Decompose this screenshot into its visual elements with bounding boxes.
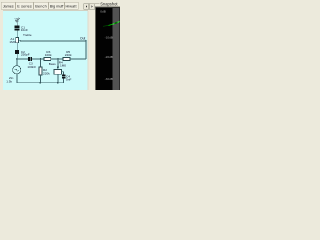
plot dB labels (100, 9, 113, 81)
spin buttons (84, 4, 95, 9)
response curve (103, 24, 109, 27)
wire R3 to R5 (51, 58, 63, 60)
svg-text:1M0: 1M0 (60, 63, 66, 67)
node ground Bass (57, 82, 59, 84)
capacitor C4 (62, 75, 66, 77)
svg-text:James: James (3, 4, 14, 8)
svg-text:Bench: Bench (35, 4, 47, 8)
node Bass tap (57, 58, 59, 60)
tab separators (16, 3, 65, 9)
svg-text:1M0: 1M0 (9, 40, 15, 44)
wiper arrow Treble (19, 40, 22, 42)
wire top rail to Out (22, 40, 87, 42)
source Zin (AC generator) (13, 66, 21, 74)
wire C1 to Treble pot (16, 30, 18, 37)
wire source top (16, 59, 18, 66)
wire Bass branch (57, 59, 59, 66)
node ground R2 (40, 82, 42, 84)
window background (0, 0, 120, 90)
svg-text:Treble: Treble (23, 33, 32, 37)
wire mid rail left (17, 58, 28, 60)
schematic panel (cyan) (3, 11, 88, 90)
potentiometer VR1 Treble (16, 37, 19, 42)
resistor R2 (39, 67, 42, 75)
svg-text:10nF: 10nF (21, 28, 28, 32)
resistor R3 (44, 58, 51, 61)
wire source bottom (16, 74, 18, 83)
capacitor C2 (15, 50, 19, 52)
svg-text:Bass: Bass (49, 62, 56, 66)
svg-text:Hiwatt: Hiwatt (66, 4, 78, 8)
wire ground rail (17, 82, 64, 84)
svg-text:220k: 220k (65, 53, 72, 57)
svg-text:5nF: 5nF (66, 77, 71, 81)
svg-text:Out: Out (80, 36, 85, 40)
capacitor C1 (15, 26, 20, 28)
resistor R5 (63, 58, 70, 61)
schematic labels (6, 26, 85, 84)
svg-text:E series: E series (17, 4, 32, 8)
svg-text:220k: 220k (43, 71, 50, 75)
wire Bass pot to ground rail (57, 74, 59, 83)
svg-text:100nF: 100nF (27, 65, 36, 69)
wire C3 to R3 (32, 58, 44, 60)
svg-text:1.5k: 1.5k (6, 80, 12, 84)
wire R2 to ground rail (39, 75, 41, 83)
snapshot plot panel (95, 6, 120, 90)
svg-text:0dB: 0dB (100, 9, 106, 13)
svg-text:-30dB: -30dB (105, 77, 113, 81)
node Out (85, 40, 87, 42)
wire C4 top stub (61, 72, 63, 75)
input arrow symbol (15, 18, 20, 26)
Snapshot groupbox caption (91, 1, 119, 6)
svg-text:Snapshot: Snapshot (100, 1, 118, 6)
plot tick ladder (113, 9, 120, 90)
svg-text:100k: 100k (45, 53, 52, 57)
svg-text:Big muff: Big muff (50, 4, 64, 8)
wire C2 to mid rail (16, 54, 18, 59)
capacitor C3 (28, 57, 30, 61)
wire R2 branch (39, 59, 41, 67)
potentiometer VR2 Bass (54, 69, 61, 74)
node R2 tap (40, 58, 42, 60)
wire C4 to ground rail (63, 79, 65, 83)
tab strip (1, 2, 78, 9)
svg-text:250pF: 250pF (21, 53, 30, 57)
schematic drawing (13, 18, 87, 84)
wire R5 to Out drop (70, 58, 86, 60)
node mid-left junction (16, 58, 18, 60)
svg-text:-10dB: -10dB (105, 35, 113, 39)
svg-text:-20dB: -20dB (105, 55, 113, 59)
wiper arrow Bass (57, 66, 60, 69)
wire Out drop (85, 41, 87, 59)
wire pot to C2 (16, 43, 18, 50)
